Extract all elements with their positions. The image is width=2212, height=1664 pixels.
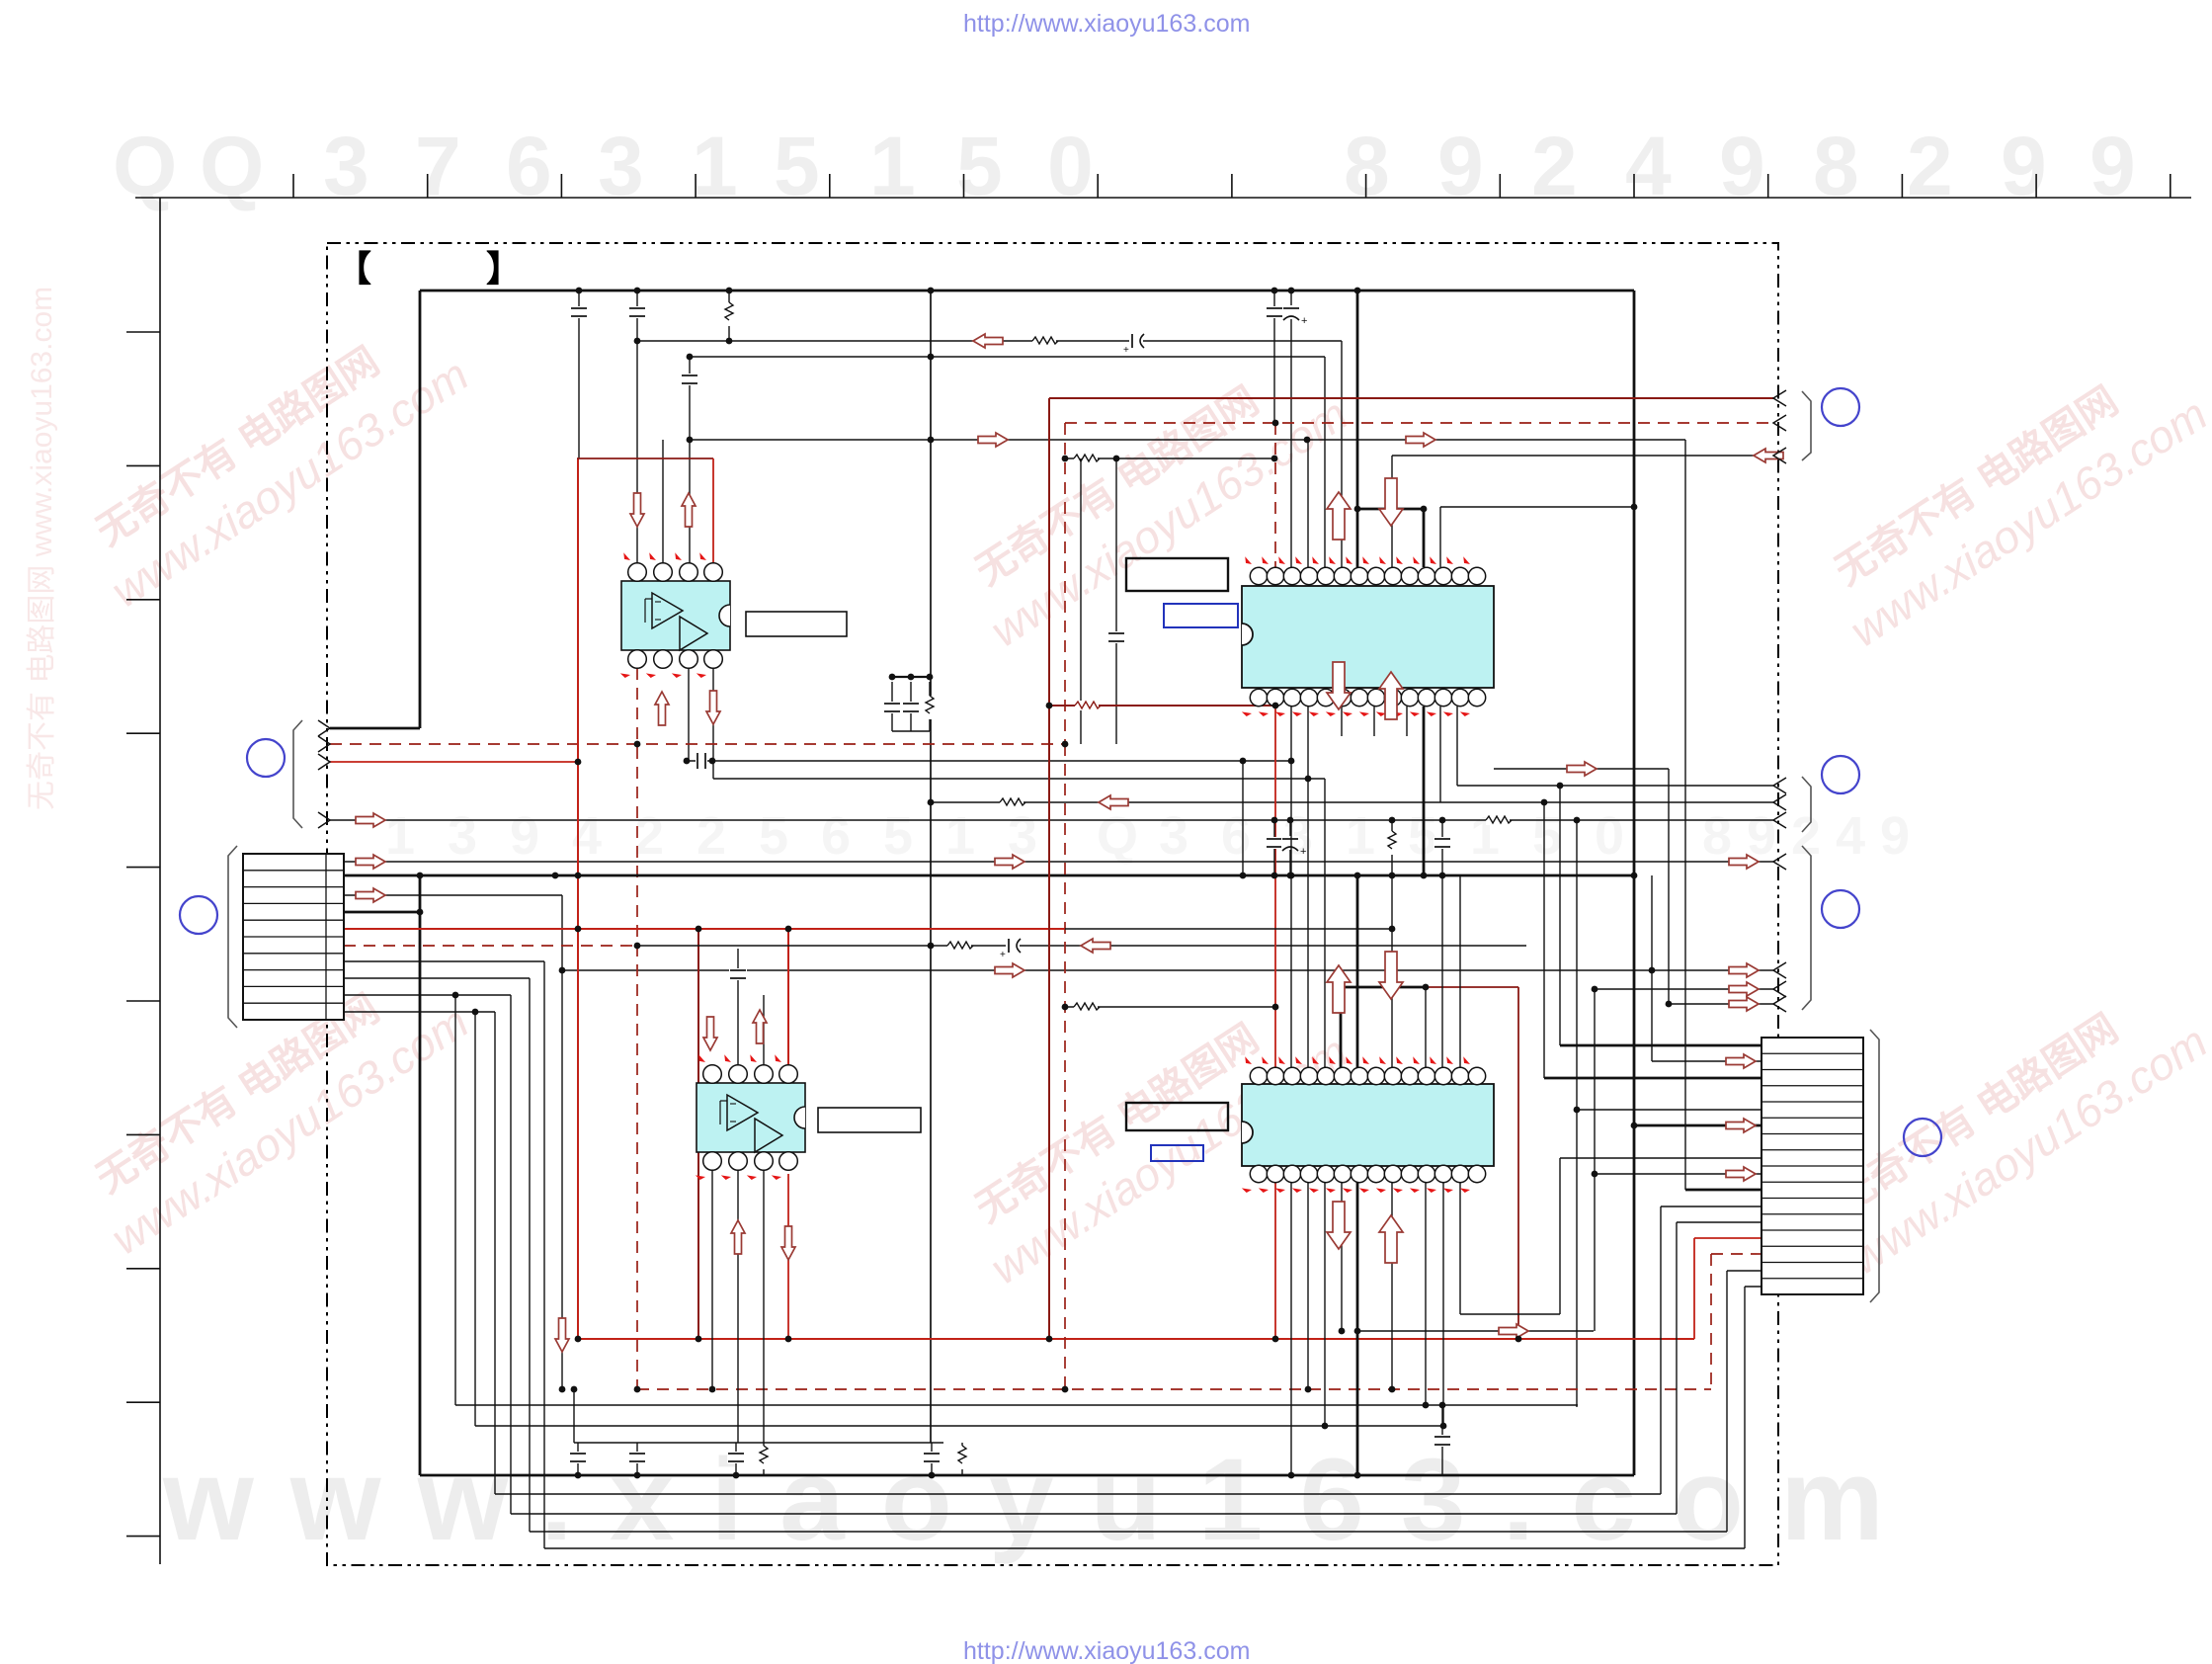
svg-text:8: 8 bbox=[1344, 120, 1390, 212]
svg-text:2: 2 bbox=[1791, 806, 1821, 866]
svg-text:0: 0 bbox=[1595, 806, 1624, 866]
svg-text:7: 7 bbox=[415, 120, 461, 212]
svg-text:2: 2 bbox=[634, 806, 664, 866]
svg-text:8: 8 bbox=[1702, 806, 1732, 866]
svg-text:5: 5 bbox=[1532, 806, 1562, 866]
svg-text:9: 9 bbox=[2089, 120, 2136, 212]
svg-text:3: 3 bbox=[323, 120, 369, 212]
svg-text:Q: Q bbox=[113, 120, 177, 212]
svg-text:3: 3 bbox=[1159, 806, 1188, 866]
svg-text:9: 9 bbox=[1719, 120, 1765, 212]
svg-text:0: 0 bbox=[1047, 120, 1094, 212]
svg-text:3: 3 bbox=[598, 120, 644, 212]
svg-text:5: 5 bbox=[956, 120, 1003, 212]
svg-text:9: 9 bbox=[2001, 120, 2047, 212]
svg-text:6: 6 bbox=[1221, 806, 1251, 866]
svg-text:【: 【 bbox=[336, 248, 371, 289]
svg-text:http://www.xiaoyu163.com: http://www.xiaoyu163.com bbox=[963, 10, 1250, 38]
svg-text:5: 5 bbox=[759, 806, 788, 866]
svg-text:1: 1 bbox=[692, 120, 738, 212]
svg-text:1: 1 bbox=[385, 806, 415, 866]
svg-text:3: 3 bbox=[448, 806, 477, 866]
svg-text:+: + bbox=[1000, 950, 1006, 960]
svg-text:无奇不有 电路图网 www.xiaoyu163.com: 无奇不有 电路图网 www.xiaoyu163.com bbox=[26, 287, 58, 810]
svg-text:Q: Q bbox=[1097, 806, 1138, 866]
svg-text:9: 9 bbox=[510, 806, 539, 866]
svg-text:+: + bbox=[1301, 315, 1307, 327]
svg-text:6: 6 bbox=[506, 120, 552, 212]
svg-text:9: 9 bbox=[1437, 120, 1484, 212]
svg-text:4: 4 bbox=[572, 806, 602, 866]
svg-text:1: 1 bbox=[1346, 806, 1375, 866]
svg-text:4: 4 bbox=[1836, 806, 1865, 866]
svg-text:5: 5 bbox=[774, 120, 820, 212]
svg-text:1: 1 bbox=[945, 806, 975, 866]
svg-text:5: 5 bbox=[883, 806, 913, 866]
svg-text:www.xiaoyu163.com: www.xiaoyu163.com bbox=[162, 1435, 1921, 1565]
svg-text:2: 2 bbox=[696, 806, 726, 866]
svg-text:2: 2 bbox=[1531, 120, 1578, 212]
svg-text:4: 4 bbox=[1625, 120, 1672, 212]
svg-text:1: 1 bbox=[869, 120, 916, 212]
svg-text:6: 6 bbox=[821, 806, 851, 866]
svg-text:】: 】 bbox=[486, 248, 522, 289]
svg-text:8: 8 bbox=[1813, 120, 1859, 212]
svg-text:http://www.xiaoyu163.com: http://www.xiaoyu163.com bbox=[963, 1637, 1250, 1664]
svg-text:2: 2 bbox=[1907, 120, 1953, 212]
svg-text:+: + bbox=[1123, 345, 1129, 356]
svg-text:9: 9 bbox=[1880, 806, 1910, 866]
svg-text:+: + bbox=[1300, 846, 1306, 858]
svg-text:Q: Q bbox=[200, 120, 264, 212]
